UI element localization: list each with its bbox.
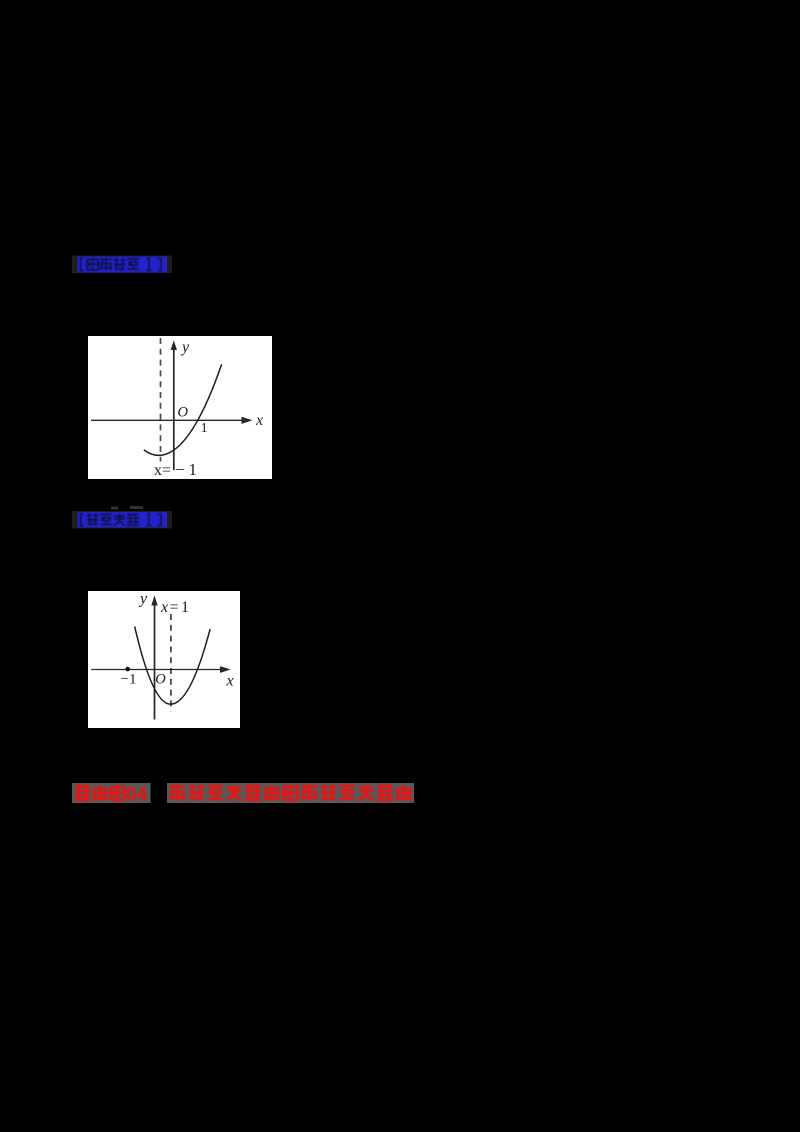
svg-text:x: x xyxy=(160,599,168,616)
svg-text:1: 1 xyxy=(201,421,208,436)
svg-text:−: − xyxy=(175,460,185,479)
svg-text:O: O xyxy=(155,672,166,688)
svg-text:x: x xyxy=(255,412,263,429)
heading: red knowledge-point 04 title xyxy=(70,780,420,807)
x-axis xyxy=(91,419,243,421)
svg-text:1: 1 xyxy=(189,460,198,479)
svg-text:−1: −1 xyxy=(121,672,137,688)
heading: blue label 2 xyxy=(70,504,175,530)
svg-text:1: 1 xyxy=(181,599,189,616)
parabola curve xyxy=(135,627,210,705)
y-axis xyxy=(173,348,175,470)
y-axis xyxy=(154,604,156,720)
svg-text:y: y xyxy=(180,339,190,356)
svg-text:04: 04 xyxy=(126,785,148,806)
dashed line x=-1 xyxy=(160,338,162,462)
svg-text:=: = xyxy=(170,599,179,616)
parabola curve xyxy=(144,364,222,455)
svg-text:x=: x= xyxy=(154,462,171,479)
svg-text:y: y xyxy=(138,591,148,608)
figure: graph 1 (parabola, symmetry axis x=-1) xyxy=(88,336,272,479)
svg-text:x: x xyxy=(226,673,234,690)
x-axis xyxy=(91,669,221,671)
point (-1,0) xyxy=(125,667,130,672)
figure: graph 2 (parabola, symmetry axis x=1) xyxy=(88,591,240,728)
dashed line x=1 xyxy=(170,614,172,712)
svg-text:O: O xyxy=(178,405,189,421)
heading: blue label 1 xyxy=(70,253,175,275)
